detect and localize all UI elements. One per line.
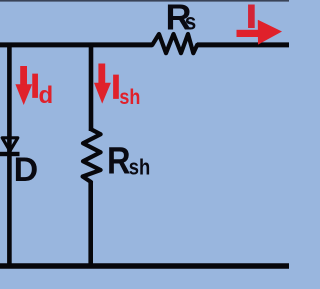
svg-text:D: D (14, 151, 39, 189)
svg-text:s: s (185, 8, 197, 34)
current arrow Id (downward) (15, 66, 32, 105)
svg-text:sh: sh (119, 85, 140, 109)
current arrow I (output current, pointing right) (237, 20, 283, 45)
label Id (30, 68, 53, 109)
wire: left branch vertical (diode branch) (7, 43, 12, 267)
wire: top bus, left segment (0, 42, 153, 47)
svg-text:R: R (107, 141, 131, 183)
diode D (0, 138, 20, 156)
label Ish (111, 68, 140, 109)
svg-text:I: I (247, 0, 256, 34)
svg-text:sh: sh (129, 154, 151, 179)
svg-text:d: d (39, 82, 54, 109)
resistor Rs (152, 34, 197, 53)
wire: top bus, right segment (197, 42, 289, 47)
wire: shunt branch lower segment (88, 181, 93, 267)
label Rs (166, 0, 197, 37)
resistor Rsh (83, 129, 101, 182)
current arrow Ish (downward) (94, 64, 111, 104)
wire: shunt branch upper segment (89, 43, 94, 131)
label Rsh (107, 141, 150, 183)
wire: bottom bus (0, 263, 289, 269)
